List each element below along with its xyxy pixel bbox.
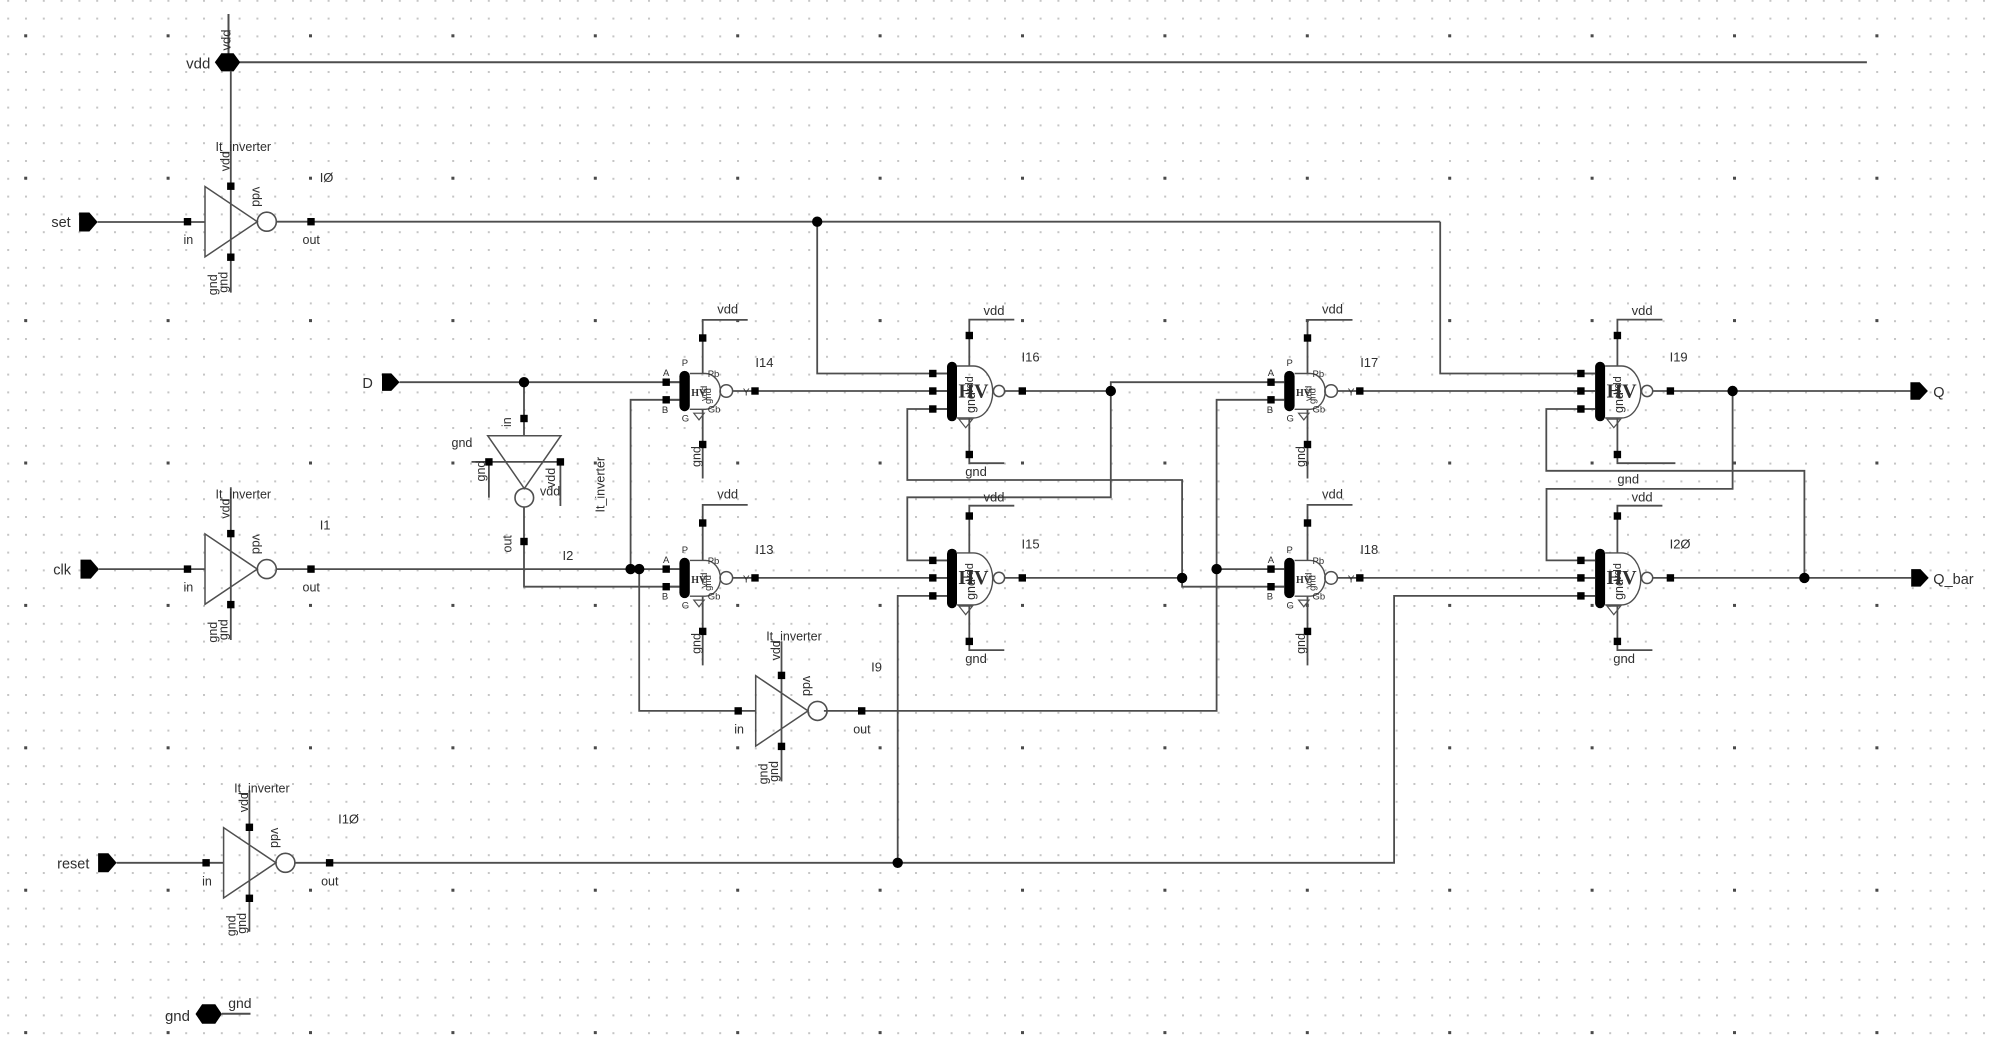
wire I2.out to I13.B [524,507,679,587]
svg-text:I19: I19 [1670,350,1688,365]
svg-text:vdd: vdd [984,490,1005,505]
svg-text:gnd: gnd [206,274,220,295]
junction Q_bar branch [1799,573,1809,583]
svg-text:I2: I2 [563,548,574,563]
svg-text:vdd: vdd [1632,303,1653,318]
svg-text:in: in [202,874,212,888]
svg-text:vdd: vdd [219,30,234,51]
svg-text:gnd: gnd [689,446,703,467]
svg-text:B: B [1267,592,1273,603]
gnd supply pin [165,995,252,1025]
svg-text:reset: reset [57,856,89,872]
svg-text:vdd: vdd [250,534,264,554]
wire reset_b line to I20.C [295,596,1595,863]
svg-text:I13: I13 [755,542,773,557]
wire Q_bar to I19.C [1546,409,1804,578]
svg-text:A: A [1268,368,1275,379]
svg-text:A: A [663,555,670,566]
svg-text:I9: I9 [871,659,882,674]
svg-text:P: P [682,545,688,556]
svg-text:HV: HV [1607,567,1638,589]
svg-text:clk: clk [53,563,71,579]
svg-text:gnd: gnd [1294,446,1308,467]
output pin Q_bar [1911,569,1974,588]
wire I16.Y to I15.A [907,391,1111,560]
svg-text:G: G [682,413,689,424]
wire D line [400,381,680,383]
svg-text:Gb: Gb [1313,405,1326,416]
wire I15.Y to I16.C loop [907,409,1284,587]
junction I9 line to I18.A [1211,564,1221,574]
wire I16.Y to I17.A [1005,382,1285,391]
wire gnd pin stub [222,1013,251,1015]
svg-text:vdd: vdd [237,792,251,812]
input pin D [362,373,399,392]
svg-text:I1: I1 [320,517,331,532]
svg-text:set: set [51,215,70,231]
svg-text:I14: I14 [755,355,773,370]
junction clk_b up [625,564,635,574]
svg-text:gnd: gnd [965,651,987,666]
svg-text:Gb: Gb [708,592,721,603]
NAND2 gate I18 [1267,487,1379,666]
wire I13.Y to I15.B [733,577,947,579]
svg-text:gnd: gnd [474,461,488,482]
svg-text:I1Ø: I1Ø [338,811,359,826]
wire Q_bar line [1653,577,1912,579]
svg-text:out: out [303,581,321,595]
svg-text:D: D [362,376,372,392]
wire set_b to I16.A [817,222,947,374]
junction D to I2 [519,377,529,387]
svg-text:vdd: vdd [218,151,232,171]
svg-text:HV: HV [959,567,990,589]
svg-text:I2Ø: I2Ø [1670,536,1691,551]
svg-text:P: P [1287,358,1293,369]
svg-text:B: B [662,405,668,416]
input pin clk [53,560,99,579]
svg-text:G: G [1287,600,1294,611]
svg-text:gnd: gnd [689,633,703,654]
svg-text:P: P [682,358,688,369]
svg-text:out: out [853,722,871,736]
junction Q branch [1727,386,1737,396]
NAND3 gate I16 [929,303,1039,479]
wire set_b to I19.A [1440,222,1595,374]
svg-text:G: G [682,600,689,611]
svg-text:I17: I17 [1360,355,1378,370]
svg-text:vdd: vdd [1322,302,1343,317]
wire I17.Y to I19.B [1337,390,1595,392]
wire I18.Y to I20.B [1337,577,1595,579]
svg-text:gnd: gnd [965,464,987,479]
svg-text:vdd: vdd [268,828,282,848]
svg-text:A: A [663,368,670,379]
svg-text:HV: HV [691,575,707,586]
wire vdd rail [240,61,1867,63]
svg-text:HV: HV [1607,380,1638,402]
wire Q to I20.A [1547,391,1733,560]
junction reset_b branch [893,858,903,868]
svg-text:Gb: Gb [1313,592,1326,603]
wire I15.Y line [1005,577,1183,579]
svg-text:HV: HV [959,380,990,402]
wire reset_b to I15.C [898,596,947,863]
NAND3 gate I20 [1577,490,1690,666]
svg-text:It_inverter: It_inverter [594,457,608,513]
svg-text:B: B [662,592,668,603]
svg-text:HV: HV [1296,388,1312,399]
svg-text:in: in [184,233,194,247]
svg-text:out: out [321,874,339,888]
wire reset input [117,862,224,864]
svg-text:Y: Y [1348,388,1355,399]
svg-text:I15: I15 [1022,536,1040,551]
inverter I10 [202,781,339,936]
svg-text:vdd: vdd [1632,490,1653,505]
junction I16 output [1106,386,1116,396]
svg-text:out: out [303,233,321,247]
wire Q line [1653,390,1911,392]
wire clk input [99,568,205,570]
NAND2 gate I14 [662,302,774,479]
svg-text:Pb: Pb [708,556,720,567]
svg-text:Pb: Pb [708,369,720,380]
svg-text:A: A [1268,555,1275,566]
svg-text:Y: Y [743,574,750,585]
svg-text:vdd: vdd [769,640,783,660]
svg-text:gnd: gnd [228,995,251,1011]
wire I18.A branch [1217,568,1285,570]
svg-text:HV: HV [1296,575,1312,586]
NAND2 gate I17 [1267,302,1379,479]
junction set_b branch [812,217,822,227]
svg-text:HV: HV [691,388,707,399]
wire I9.out to I17.B and I18.A [824,400,1284,711]
svg-text:gnd: gnd [165,1008,190,1025]
svg-text:gnd: gnd [206,622,220,643]
svg-text:IØ: IØ [320,170,334,185]
svg-text:vdd: vdd [800,676,814,696]
junction I15 output [1177,573,1187,583]
svg-text:vdd: vdd [1322,487,1343,502]
svg-text:Y: Y [743,388,750,399]
svg-text:I16: I16 [1022,350,1040,365]
svg-text:Pb: Pb [1313,369,1325,380]
wire I14.Y to I16.B [733,390,947,392]
NAND3 gate I15 [929,490,1039,666]
junction clk_b down [634,564,644,574]
svg-text:gnd: gnd [1617,471,1639,486]
svg-text:in: in [500,417,514,427]
input pin reset [57,853,116,872]
inverter I9 [734,629,871,784]
svg-text:vdd: vdd [717,302,738,317]
wire set input [98,221,205,223]
svg-text:out: out [501,535,515,553]
svg-text:G: G [1287,413,1294,424]
svg-text:B: B [1267,405,1273,416]
svg-text:P: P [1287,545,1293,556]
wire clk_b to I14.B [631,400,680,569]
svg-text:gnd: gnd [1294,633,1308,654]
svg-text:I18: I18 [1360,542,1378,557]
inverter I2 (pointing down) [452,415,608,563]
input pin set [51,213,97,232]
wire vdd pin stub [228,14,230,54]
wire set_b line [276,221,1440,223]
svg-text:Y: Y [1348,574,1355,585]
inverter I1 [184,487,321,642]
svg-text:in: in [184,581,194,595]
svg-text:Gb: Gb [708,405,721,416]
svg-text:gnd: gnd [757,763,771,784]
svg-text:vdd: vdd [540,485,560,499]
svg-text:gnd: gnd [225,915,239,936]
NAND3 gate I19 [1577,303,1687,486]
vdd supply pin [186,30,240,73]
NAND2 gate I13 [662,487,774,666]
svg-text:Q: Q [1933,385,1944,401]
svg-text:gnd: gnd [452,436,473,450]
svg-text:vdd: vdd [984,303,1005,318]
svg-text:gnd: gnd [1613,651,1635,666]
svg-text:in: in [734,722,744,736]
svg-text:vdd: vdd [218,498,232,518]
wire D to I2.in [523,382,525,436]
svg-text:vdd: vdd [186,56,210,73]
wire clk_b to I9.in [639,569,756,711]
svg-text:vdd: vdd [717,487,738,502]
wire clk_b line [276,568,679,570]
svg-text:Pb: Pb [1313,556,1325,567]
inverter I0 [184,71,321,295]
svg-text:vdd: vdd [250,187,264,207]
svg-text:Q_bar: Q_bar [1933,572,1973,588]
output pin Q [1910,382,1944,401]
